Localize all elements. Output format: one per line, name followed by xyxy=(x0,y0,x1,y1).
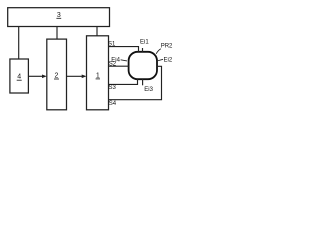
block 4 (left box) xyxy=(10,59,29,93)
svg-text:S4: S4 xyxy=(109,101,117,107)
wire: box4 to box2 (arrow) xyxy=(28,75,46,79)
port Ei1: top stub right line xyxy=(142,48,144,52)
svg-text:2: 2 xyxy=(55,73,59,80)
svg-text:Ei3: Ei3 xyxy=(144,87,153,93)
block 1 (tall box) xyxy=(87,36,109,110)
svg-text:4: 4 xyxy=(17,74,21,81)
wire: box2 to box1 (arrow) xyxy=(67,75,87,79)
svg-text:Ei2: Ei2 xyxy=(164,58,173,64)
svg-text:S3: S3 xyxy=(109,85,117,91)
block 2 (middle box) xyxy=(47,39,67,110)
svg-text:1: 1 xyxy=(96,72,100,79)
svg-text:3: 3 xyxy=(57,12,61,19)
node S4: wire box1 to right port (down and around) xyxy=(109,66,162,99)
wire: box3 to box2 xyxy=(56,27,58,40)
wire: box3 to box1 xyxy=(96,27,98,36)
node S2: wire box1 to left port xyxy=(109,65,130,67)
node S1: wire box1 to top port xyxy=(109,47,139,53)
wire: box3 to box4 xyxy=(18,27,20,60)
ring unit (circular distributor) xyxy=(129,52,157,79)
port Ei3: bottom stub right line xyxy=(142,79,144,85)
block 3 (top control unit box) xyxy=(8,8,110,27)
svg-text:Ei1: Ei1 xyxy=(140,39,149,45)
svg-text:PR2: PR2 xyxy=(161,44,173,50)
svg-text:Ei4: Ei4 xyxy=(111,57,120,63)
svg-text:S1: S1 xyxy=(108,41,116,47)
node S3: wire box1 to bottom port xyxy=(109,79,138,84)
